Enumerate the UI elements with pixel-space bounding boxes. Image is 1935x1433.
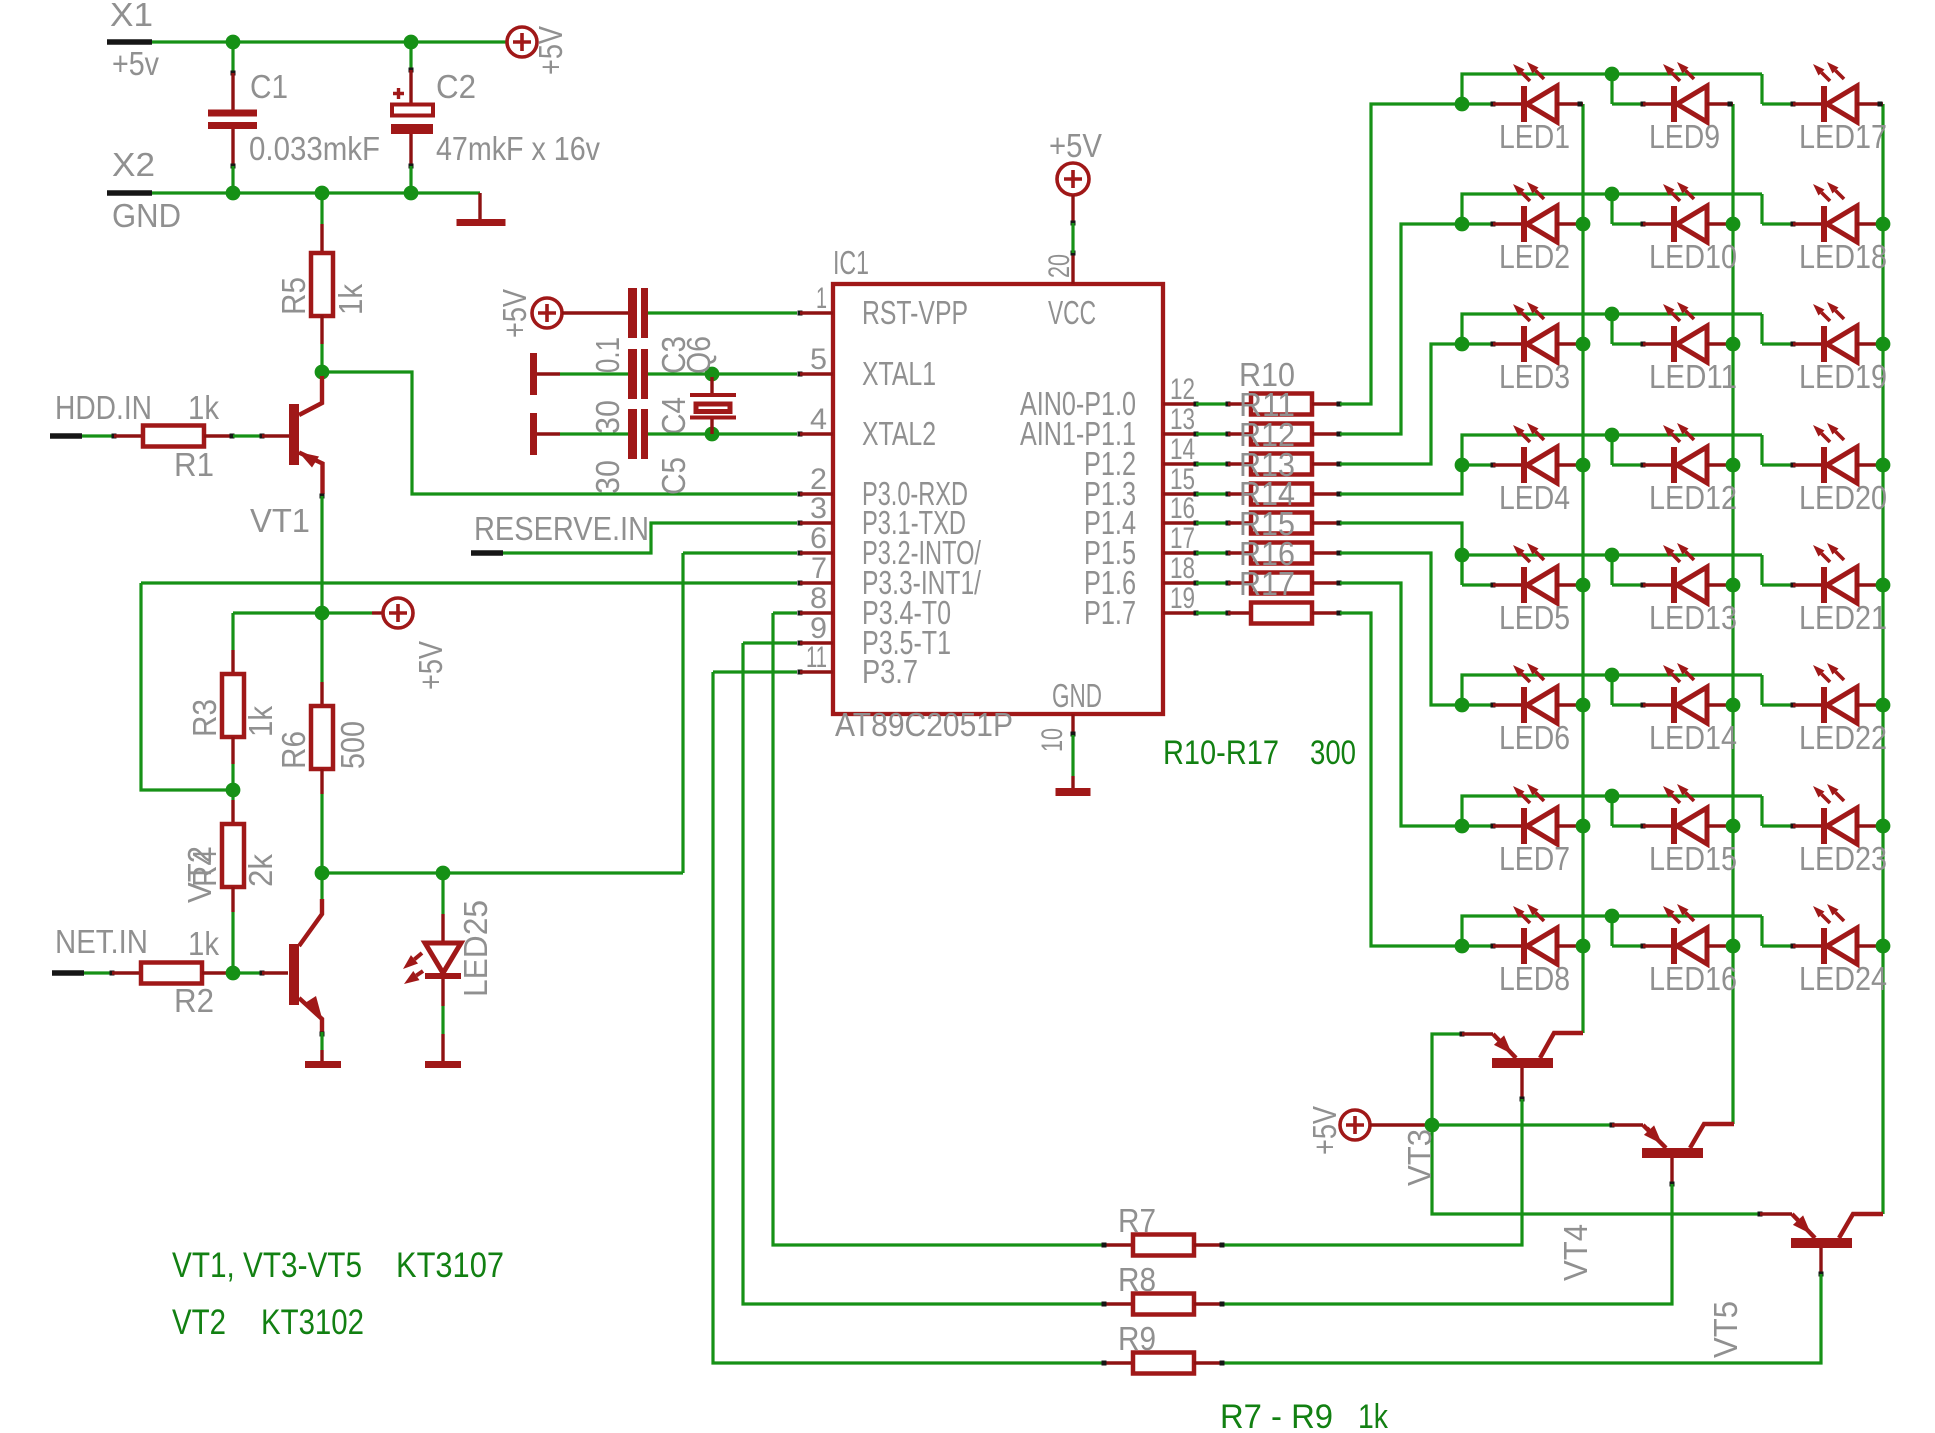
resistor R5 1k [320,193,323,224]
node feed row 1 [1455,97,1470,112]
svg-text:2k: 2k [242,854,279,887]
node bus row 8 col2 [1605,909,1620,924]
wire cathode column 2 [1731,104,1734,1124]
wire bus drop to LED23 [1760,796,1763,826]
wire VT2 collector [320,873,323,899]
connector HDD.IN pin [50,433,82,439]
pin 1 RST-VPP [798,311,803,316]
node column2 row 4 [1726,458,1741,473]
resistor R2 1k [110,971,115,976]
led LED11 [1612,342,1643,345]
wire bus drop to LED17 [1760,74,1763,104]
node column3 row 6 [1876,698,1891,713]
node column1 row 4 [1576,458,1591,473]
wire P3.4 to R7 [773,611,797,614]
node column2 row 2 [1726,217,1741,232]
svg-text:R1: R1 [174,446,214,483]
pin 10 GND [1071,714,1074,735]
connector X1 pin [107,39,152,45]
svg-text:LED2: LED2 [1499,238,1570,275]
transistor VT1 KT3107 pnp [260,434,265,439]
node VT2 collector rail [315,866,330,881]
svg-text:LED19: LED19 [1799,358,1887,395]
node R5 / VT1 collector [315,365,330,380]
pin 4 XTAL2 [798,432,803,437]
wire anode bus row 7 [1462,796,1762,826]
svg-text:LED4: LED4 [1499,479,1570,516]
power +5V symbol reset [532,298,562,328]
pin 8 P3.4-T0 [798,611,803,616]
node feed row 7 [1455,819,1470,834]
crystal Q6 [705,367,720,382]
node column2 row 5 [1726,578,1741,593]
svg-text:20: 20 [1043,254,1076,278]
wire P3.3 long net [141,581,797,584]
node column1 row 6 [1576,698,1591,713]
svg-text:R6: R6 [275,731,312,769]
svg-text:VCC: VCC [1048,294,1096,331]
wire NET.IN to R2 [84,971,112,974]
resistor R12 300 [1196,462,1228,465]
svg-text:LED16: LED16 [1649,960,1737,997]
svg-text:AT89C2051P: AT89C2051P [835,706,1013,743]
svg-text:11: 11 [806,641,827,674]
svg-text:VT1, VT3-VT5: VT1, VT3-VT5 [172,1246,362,1285]
wire feed R13 to LED row 4 [1340,465,1462,494]
wire bus drop to LED11 [1610,314,1613,344]
svg-text:1: 1 [816,282,827,315]
svg-text:+5V: +5V [496,289,533,338]
led LED9 [1612,102,1643,105]
wire VT3 base to R7 [1222,1099,1522,1245]
ground symbol IC1 [1071,735,1074,776]
pin 18 P1.6 [1163,581,1196,584]
svg-text:VT4: VT4 [1557,1224,1594,1281]
svg-text:+5V: +5V [412,641,449,690]
svg-text:RESERVE.IN: RESERVE.IN [474,510,649,547]
pin 20 VCC [1071,253,1074,284]
wire VT4 base to R8 [1222,1184,1672,1304]
pin 12 AIN0-P1.0 [1163,402,1196,405]
wire feed R14 to LED row 5 [1340,523,1462,585]
svg-text:KT3107: KT3107 [396,1246,504,1285]
pin 5 XTAL1 [798,372,803,377]
svg-text:+5V: +5V [1049,127,1102,164]
svg-text:GND: GND [112,197,181,234]
led LED15 [1612,824,1643,827]
wire +5v rail [152,40,507,43]
wire bus drop to LED18 [1760,194,1763,224]
wire P3.7 to R9 [713,670,797,673]
svg-text:R8: R8 [1118,1261,1156,1298]
led LED3 [1462,342,1493,345]
wire feed R10 to LED row 1 [1340,104,1462,404]
svg-text:NET.IN: NET.IN [55,923,148,960]
svg-text:LED8: LED8 [1499,960,1570,997]
node feed row 8 [1455,939,1470,954]
node driver +5V rail [1425,1118,1440,1133]
svg-text:VT2: VT2 [172,1303,226,1342]
wire divider to P3.3 riser [141,583,233,790]
svg-text:C5: C5 [655,457,692,495]
svg-text:LED15: LED15 [1649,840,1737,877]
wire VT5 base to R9 [1222,1274,1821,1363]
node column3 row 7 [1876,819,1891,834]
led LED23 [1762,824,1793,827]
wire anode bus row 8 [1462,916,1762,946]
svg-text:30: 30 [589,400,626,434]
svg-text:LED23: LED23 [1799,840,1887,877]
led LED10 [1612,222,1643,225]
wire bus drop to LED22 [1760,675,1763,705]
svg-text:VT3: VT3 [1401,1129,1438,1186]
resistor R16 300 [1196,581,1228,584]
capacitor C1 [231,42,234,73]
svg-text:1k: 1k [242,706,279,737]
wire +5V riser to VT3 [1432,1034,1462,1125]
wire anode bus row 6 [1462,675,1762,705]
pin 15 P1.3 [1163,492,1196,495]
transistor VT2 KT3102 npn [260,971,265,976]
svg-text:LED6: LED6 [1499,719,1570,756]
svg-text:1k: 1k [188,389,219,426]
svg-text:LED18: LED18 [1799,238,1887,275]
wire VT1 emitter to +5V node [320,494,325,499]
wire bus drop to LED15 [1610,796,1613,826]
pin 14 P1.2 [1163,462,1196,465]
svg-text:LED20: LED20 [1799,479,1887,516]
svg-text:30: 30 [589,460,626,494]
wire bus drop to LED9 [1610,74,1613,104]
node column3 row 5 [1876,578,1891,593]
led LED4 [1462,463,1493,466]
node bus row 4 col2 [1605,428,1620,443]
node GND rail / C2 [404,186,419,201]
svg-text:14: 14 [1170,433,1195,466]
svg-text:R7 - R9: R7 - R9 [1220,1398,1333,1433]
led LED25 [436,866,451,881]
ground symbol XTAL1 cap [530,353,537,395]
led LED17 [1762,102,1793,105]
svg-text:R3: R3 [186,699,223,737]
svg-text:LED22: LED22 [1799,719,1887,756]
resistor R15 300 [1196,551,1228,554]
wire collector node to P3.0 [322,372,797,494]
power +5V symbol top [507,27,537,57]
wire collector rail to P3.2 riser [322,871,683,874]
wire feed R15 to LED row 6 [1340,553,1462,705]
svg-text:LED17: LED17 [1799,118,1887,155]
node +5v rail / C1 [226,35,241,50]
node feed row 4 [1455,458,1470,473]
svg-text:VT2: VT2 [181,846,218,903]
svg-text:47mkF x 16v: 47mkF x 16v [436,130,600,167]
resistor R7 1k [1104,1243,1133,1246]
power +5V symbol mid [383,598,413,628]
svg-text:X2: X2 [112,146,155,183]
wire anode bus row 3 [1462,314,1762,344]
svg-text:18: 18 [1170,552,1195,585]
svg-text:C4: C4 [655,397,692,435]
node column1 row 3 [1576,337,1591,352]
led LED22 [1762,703,1793,706]
svg-text:LED9: LED9 [1649,118,1720,155]
ground symbol LED25 [441,1006,444,1034]
wire P3.2 to LED25 rail riser [683,551,797,554]
wire bus drop to LED19 [1760,314,1763,344]
led LED7 [1462,824,1493,827]
wire anode bus row 2 [1462,194,1762,224]
node bus row 5 col2 [1605,548,1620,563]
pin 17 P1.5 [1163,551,1196,554]
resistor R13 300 [1196,492,1228,495]
svg-text:LED14: LED14 [1649,719,1737,756]
svg-text:VT5: VT5 [1707,1301,1744,1358]
node column1 row 2 [1576,217,1591,232]
led LED5 [1462,583,1493,586]
svg-text:RST-VPP: RST-VPP [862,294,968,331]
connector X2 pin [107,190,152,196]
node feed row 3 [1455,337,1470,352]
node column3 row 3 [1876,337,1891,352]
svg-text:R10-R17: R10-R17 [1163,734,1279,772]
capacitor C4 30 [560,372,628,375]
svg-text:3: 3 [810,492,827,525]
svg-text:300: 300 [1310,734,1356,772]
svg-text:GND: GND [1052,677,1102,714]
led LED24 [1762,944,1793,947]
svg-text:R9: R9 [1118,1320,1156,1357]
wire bus drop to LED12 [1610,435,1613,465]
led LED20 [1762,463,1793,466]
svg-text:10: 10 [1036,728,1069,752]
svg-text:8: 8 [810,582,827,615]
wire P3.5 to R8 [743,641,797,644]
svg-text:7: 7 [811,552,827,585]
wire anode bus row 5 [1462,555,1762,585]
ic U IC1 AT89C2051P [833,284,1163,714]
led LED6 [1462,703,1493,706]
svg-text:LED10: LED10 [1649,238,1737,275]
svg-text:LED5: LED5 [1499,599,1570,636]
wire bus drop to LED13 [1610,555,1613,585]
node bus row 2 col2 [1605,187,1620,202]
wire R1 to VT1 base [233,434,262,437]
resistor R1 1k [112,434,117,439]
node column1 row 5 [1576,578,1591,593]
led LED16 [1612,944,1643,947]
transistor VT5 KT3107 pnp [1758,1212,1763,1217]
wire feed R11 to LED row 2 [1340,224,1462,434]
transistor VT4 KT3107 pnp [1610,1123,1615,1128]
node column2 row 3 [1726,337,1741,352]
wire bus drop to LED21 [1760,555,1763,585]
svg-text:XTAL1: XTAL1 [862,355,936,392]
svg-text:C1: C1 [250,68,288,105]
wire bus drop to LED10 [1610,194,1613,224]
svg-text:Q6: Q6 [680,336,717,374]
svg-text:6: 6 [810,522,827,555]
wire HDD.IN to R1 [82,434,114,437]
resistor R9 1k [1104,1361,1133,1364]
wire cathode column 3 [1881,104,1884,1214]
svg-text:16: 16 [1170,492,1195,525]
svg-text:LED13: LED13 [1649,599,1737,636]
node column3 row 4 [1876,458,1891,473]
wire feed R17 to LED row 8 [1340,613,1462,946]
wire GND rail [152,191,480,194]
capacitor C5 30 [560,432,628,435]
svg-text:LED3: LED3 [1499,358,1570,395]
svg-text:R7: R7 [1118,1202,1156,1239]
svg-text:5: 5 [810,343,827,376]
node feed row 5 [1455,548,1470,563]
wire anode bus row 4 [1462,435,1762,465]
led LED14 [1612,703,1643,706]
connector RESERVE.IN pin [471,550,503,556]
pin 19 P1.7 [1163,611,1196,614]
svg-text:1k: 1k [188,925,219,962]
node R2 / R4 / VT2 base [226,966,241,981]
resistor R11 300 [1196,432,1228,435]
pin 7 P3.3-INT1/ [798,581,803,586]
node column2 row 7 [1726,819,1741,834]
svg-text:XTAL2: XTAL2 [862,415,936,452]
wire bus drop to LED24 [1760,916,1763,946]
node GND rail / R5 [315,186,330,201]
pin 6 P3.2-INTO/ [798,551,803,556]
svg-text:1k: 1k [1358,1398,1389,1433]
pin 3 P3.1-TXD [798,521,803,526]
svg-text:C2: C2 [436,68,476,105]
node GND rail / C1 [226,186,241,201]
resistor R6 500 [320,613,323,682]
svg-text:R2: R2 [174,982,214,1019]
wire RESERVE.IN to P3.1 [503,523,797,553]
wire bus drop to LED16 [1610,916,1613,946]
wire bus drop to LED14 [1610,675,1613,705]
pin 9 P3.5-T1 [798,641,803,646]
led LED2 [1462,222,1493,225]
ground symbol XTAL2 cap [530,413,537,455]
ground symbol top right [478,193,481,219]
svg-text:4: 4 [810,403,827,436]
transistor VT3 KT3107 pnp [1460,1032,1465,1037]
capacitor C3 0.1 [562,311,628,314]
pin 2 P3.0-RXD [798,492,803,497]
svg-text:LED11: LED11 [1649,358,1737,395]
node column3 row 8 [1876,939,1891,954]
svg-text:0.033mkF: 0.033mkF [249,130,380,167]
ground symbol VT2 emitter [320,1032,325,1037]
svg-text:12: 12 [1170,373,1195,406]
power +5V symbol drivers [1340,1110,1370,1140]
connector NET.IN pin [52,970,84,976]
svg-text:19: 19 [1170,582,1195,615]
svg-text:R17: R17 [1239,565,1295,602]
node bus row 7 col2 [1605,789,1620,804]
pin 16 P1.4 [1163,521,1196,524]
node bus row 6 col2 [1605,668,1620,683]
led LED1 [1462,102,1493,105]
svg-text:LED1: LED1 [1499,118,1570,155]
svg-text:LED7: LED7 [1499,840,1570,877]
svg-text:+5V: +5V [532,26,569,75]
node bus row 3 col2 [1605,307,1620,322]
node bus row 1 col2 [1605,67,1620,82]
resistor R4 2k [231,790,234,800]
pin 11 P3.7 [798,670,803,675]
svg-text:KT3102: KT3102 [261,1303,364,1342]
resistor R17 300 [1196,611,1228,614]
svg-text:1k: 1k [332,284,369,315]
wire feed R16 to LED row 7 [1340,583,1462,826]
node feed row 6 [1455,698,1470,713]
svg-text:17: 17 [1170,522,1195,555]
svg-text:LED24: LED24 [1799,960,1887,997]
svg-text:+5v: +5v [112,45,159,82]
node column1 row 8 [1576,939,1591,954]
capacitor C2 polarized [409,42,412,70]
led LED8 [1462,944,1493,947]
wire +5V drop to VT5 [1432,1125,1760,1214]
pin 13 AIN1-P1.1 [1163,432,1196,435]
led LED21 [1762,583,1793,586]
wire bus drop to LED20 [1760,435,1763,465]
svg-text:LED25: LED25 [457,900,494,997]
wire mid rail [233,611,372,614]
svg-text:R5: R5 [275,277,312,315]
wire anode bus row 1 [1462,74,1762,104]
node column2 row 8 [1726,939,1741,954]
node column3 row 2 [1876,217,1891,232]
resistor R10 300 [1196,402,1228,405]
svg-text:VT1: VT1 [250,502,310,539]
resistor R8 1k [1104,1302,1133,1305]
node column1 row 7 [1576,819,1591,834]
node +5v rail / C2 [404,35,419,50]
svg-text:500: 500 [334,721,371,769]
resistor R3 1k [231,613,234,650]
node R3/R4 divider [226,783,241,798]
svg-text:IC1: IC1 [833,244,869,281]
svg-text:LED21: LED21 [1799,599,1887,636]
svg-text:P1.7: P1.7 [1084,594,1136,631]
led LED12 [1612,463,1643,466]
svg-text:+5V: +5V [1306,1106,1343,1155]
led LED18 [1762,222,1793,225]
svg-text:0.1: 0.1 [589,337,626,373]
wire +5V rail to VT4 [1432,1123,1611,1126]
resistor R14 300 [1196,521,1228,524]
node column2 row 6 [1726,698,1741,713]
svg-text:HDD.IN: HDD.IN [55,389,152,426]
svg-text:P3.7: P3.7 [862,653,918,690]
svg-text:LED12: LED12 [1649,479,1737,516]
node feed row 2 [1455,217,1470,232]
wire cathode column 1 [1581,104,1584,1033]
svg-text:X1: X1 [110,0,153,33]
svg-text:13: 13 [1170,403,1195,436]
led LED19 [1762,342,1793,345]
wire feed R12 to LED row 3 [1340,344,1462,464]
led LED13 [1612,583,1643,586]
node +5V mid rail [315,606,330,621]
